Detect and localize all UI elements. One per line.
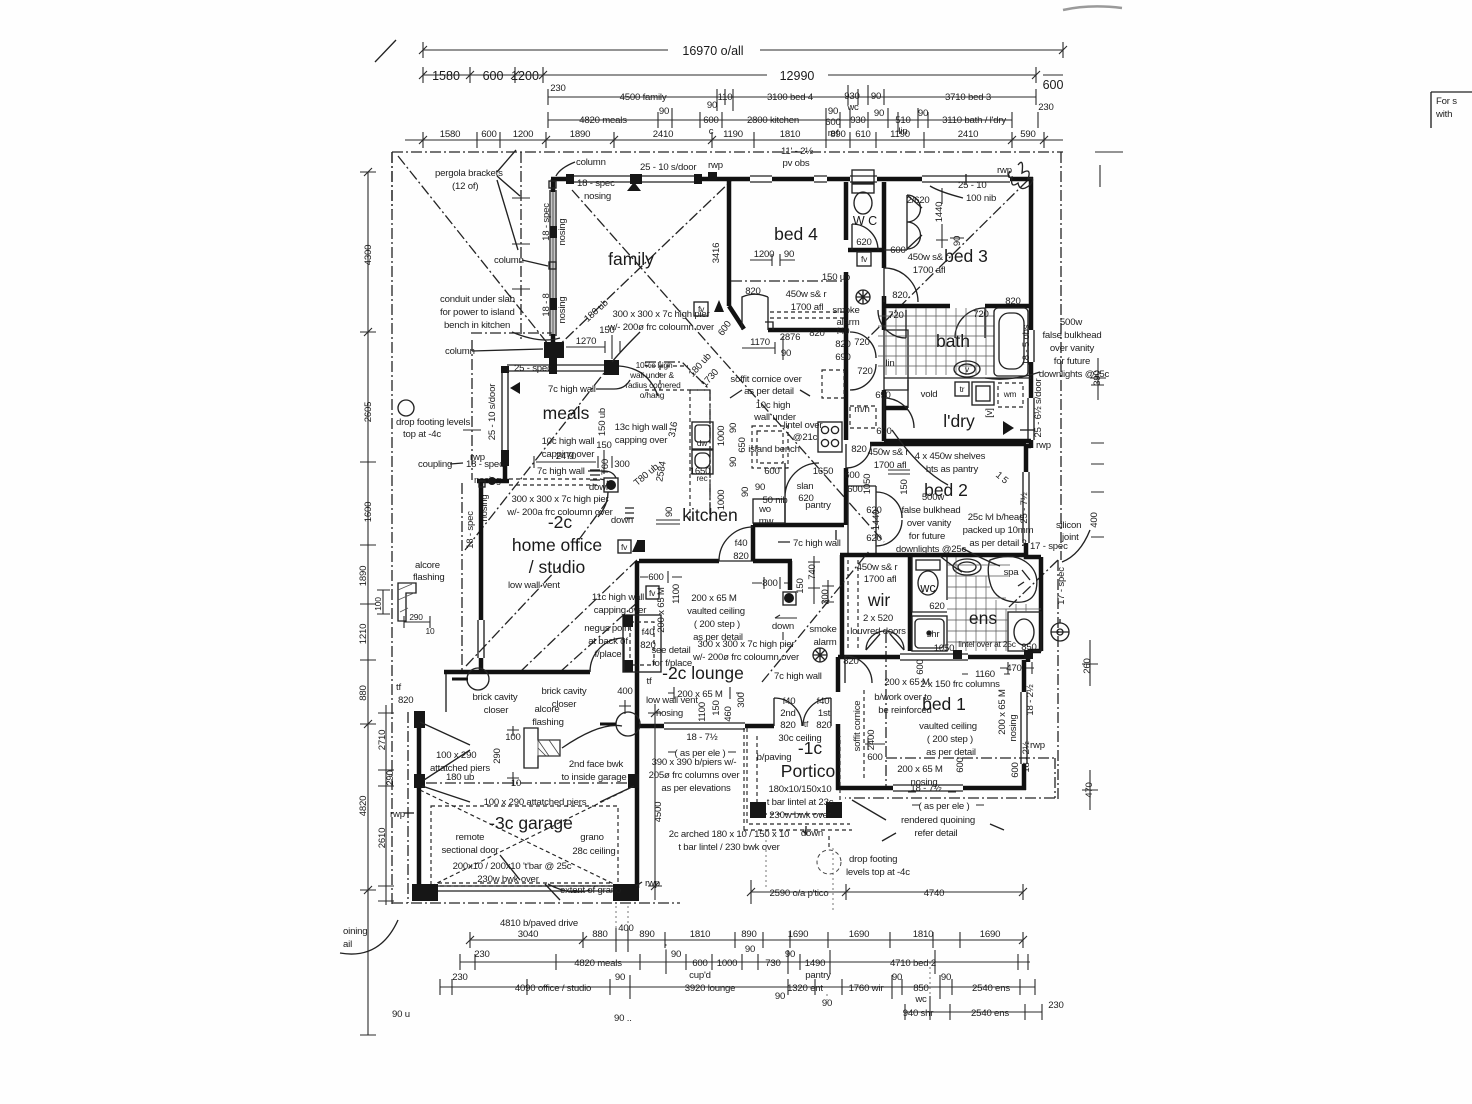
svg-text:fv: fv (698, 304, 705, 314)
top-left corner diagonal (398, 156, 548, 344)
garage top dash-dot (426, 782, 628, 784)
svg-text:low wall vent: low wall vent (508, 580, 560, 591)
drop footing dashed circle portico (817, 850, 841, 874)
svg-text:720: 720 (857, 366, 872, 377)
bed4 robe dashed (770, 312, 846, 318)
svg-text:wall under &: wall under & (629, 370, 674, 380)
svg-text:tf: tf (396, 682, 401, 693)
svg-text:4810 b/paved drive: 4810 b/paved drive (500, 918, 578, 929)
svg-text:-3c garage: -3c garage (489, 813, 573, 833)
ldry notes (1003, 421, 1014, 435)
pier at meals/kitchen (604, 360, 619, 375)
svg-text:Portico: Portico (781, 761, 835, 781)
svg-text:150: 150 (795, 578, 806, 593)
svg-text:230: 230 (1038, 102, 1053, 113)
svg-text:1690: 1690 (788, 929, 809, 940)
svg-text:rendered quoining: rendered quoining (901, 815, 975, 826)
svg-text:1690: 1690 (849, 929, 870, 940)
bed1 right wall (1022, 660, 1027, 692)
ens bump out (1024, 557, 1041, 662)
svg-text:4500 family: 4500 family (620, 92, 667, 103)
svg-text:fv: fv (861, 254, 868, 264)
svg-text:230: 230 (1048, 1000, 1063, 1011)
svg-text:25 - spec: 25 - spec (514, 363, 552, 374)
meals top low wall 7c (507, 365, 606, 371)
svg-text:1100: 1100 (671, 584, 682, 604)
svg-text:150: 150 (899, 479, 910, 494)
svg-text:vold: vold (921, 389, 938, 400)
svg-text:90: 90 (918, 108, 928, 119)
svg-text:720: 720 (888, 310, 903, 321)
svg-text:3040: 3040 (518, 929, 539, 940)
svg-text:4740: 4740 (924, 888, 945, 899)
svg-text:oining: oining (343, 926, 367, 937)
svg-text:18 - spec: 18 - spec (541, 203, 552, 241)
svg-text:150 ub: 150 ub (597, 408, 608, 436)
ldry door arc (884, 398, 914, 428)
svg-text:tf: tf (647, 676, 652, 687)
portico piers (750, 802, 766, 818)
lounge front window 18-7.5 (664, 723, 745, 729)
svg-text:extent of grano: extent of grano (560, 885, 621, 896)
eaves outline right (1058, 152, 1061, 800)
svg-text:f40: f40 (735, 538, 748, 549)
family dims (566, 335, 620, 359)
alcove stub wall (445, 674, 447, 712)
svg-text:820: 820 (1005, 296, 1020, 307)
svg-text:1190: 1190 (890, 129, 910, 140)
svg-text:( as per ele ): ( as per ele ) (918, 801, 969, 812)
svg-text:grano: grano (580, 832, 604, 843)
bed3 corner diagonal (868, 180, 1028, 338)
bed1 vertical dash-dot (885, 632, 887, 788)
svg-text:dw: dw (697, 438, 708, 448)
svg-text:1200: 1200 (513, 129, 534, 140)
tr box (972, 382, 994, 405)
svg-text:kitchen: kitchen (682, 505, 737, 525)
svg-text:( 200 step ): ( 200 step ) (927, 734, 973, 745)
svg-text:2540 ens: 2540 ens (972, 983, 1010, 994)
bed3 window 25-10 (922, 174, 1010, 184)
svg-text:300: 300 (736, 692, 747, 707)
svg-text:closer: closer (484, 705, 509, 716)
svg-text:fv: fv (621, 542, 628, 552)
svg-text:bed 3: bed 3 (944, 246, 988, 266)
svg-text:820: 820 (835, 339, 850, 350)
svg-text:alcore: alcore (535, 704, 560, 715)
ens vanity (953, 559, 981, 575)
bath/bed3 wall (884, 304, 1031, 309)
svg-text:820: 820 (843, 656, 858, 667)
svg-text:400: 400 (618, 923, 633, 934)
svg-text:90: 90 (828, 106, 838, 117)
lounge top wall (639, 559, 719, 564)
svg-text:bench in kitchen: bench in kitchen (444, 320, 510, 331)
svg-text:1000: 1000 (716, 426, 727, 447)
svg-text:150: 150 (599, 325, 614, 336)
entry double doors (774, 698, 802, 726)
svg-text:for future: for future (1054, 356, 1090, 367)
svg-text:/ studio: / studio (529, 557, 585, 577)
svg-text:390 x 390 b/piers w/-: 390 x 390 b/piers w/- (652, 757, 737, 768)
svg-text:1600: 1600 (363, 502, 374, 523)
wir west wall (840, 555, 845, 657)
bed2 right wall lower (1024, 543, 1029, 559)
svg-text:600: 600 (764, 466, 779, 477)
svg-text:10: 10 (511, 778, 521, 789)
svg-text:150: 150 (711, 700, 722, 715)
svg-text:3100 bed 4: 3100 bed 4 (767, 92, 814, 103)
ens bottom / bed1 top wall (838, 655, 1028, 660)
l'dry slider right 25-6.5 (1028, 398, 1034, 440)
svg-text:90: 90 (740, 487, 751, 497)
svg-text:b/work over to: b/work over to (874, 692, 931, 703)
svg-text:capping over: capping over (594, 605, 648, 616)
soffit cornice dashed vertical entry (863, 690, 865, 780)
svg-text:cup'd: cup'd (689, 970, 711, 981)
smoke alarm bed area (856, 290, 870, 304)
meals low wall dashed (509, 479, 612, 492)
svg-text:rwp: rwp (1030, 740, 1045, 751)
svg-text:90: 90 (785, 949, 795, 960)
svg-text:@21c: @21c (793, 432, 818, 443)
bed1 bottom wall (963, 786, 1026, 791)
cut-off note box right edge (1431, 92, 1472, 128)
svg-text:m/h: m/h (854, 404, 869, 415)
meals sliding door west 25-10 s/door (502, 370, 508, 456)
svg-text:wir: wir (867, 590, 891, 610)
svg-text:620: 620 (866, 533, 881, 544)
wm dashed box (998, 383, 1023, 407)
bed1 window bottom 18-7.5 (893, 785, 963, 791)
family top wall west segment (551, 177, 570, 182)
svg-text:1050: 1050 (934, 643, 955, 654)
dimension row 4500 family / 3100 bed4 / 3710 bed3 (548, 83, 1054, 113)
svg-text:1190: 1190 (723, 129, 743, 140)
svg-text:2590 o/a p'tico: 2590 o/a p'tico (769, 888, 828, 899)
svg-text:510: 510 (895, 115, 910, 126)
island bench dashed (752, 426, 788, 468)
svg-text:18 - 7½: 18 - 7½ (686, 732, 717, 743)
svg-text:2/620: 2/620 (906, 195, 929, 206)
svg-text:18 - 8: 18 - 8 (541, 293, 552, 316)
office/lounge diagonal dashes (560, 500, 640, 672)
svg-text:sectional door: sectional door (442, 845, 500, 856)
lounge west wall continuing as garage east wall (635, 561, 640, 888)
svg-text:rwp: rwp (1036, 440, 1051, 451)
svg-text:4820 meals: 4820 meals (574, 958, 622, 969)
svg-text:pantry: pantry (805, 970, 831, 981)
eaves bottom right around bed1 (845, 758, 1055, 798)
svg-text:10: 10 (426, 626, 435, 636)
svg-text:300: 300 (614, 459, 629, 470)
office bottom wall (444, 670, 590, 675)
ens basin right (1008, 612, 1041, 651)
garage west wall (417, 713, 422, 888)
svg-text:180x10/150x10: 180x10/150x10 (768, 784, 831, 795)
svg-text:vaulted ceiling: vaulted ceiling (919, 721, 977, 732)
svg-text:820: 820 (809, 328, 824, 339)
svg-text:1000: 1000 (717, 958, 738, 969)
svg-text:7c high wall: 7c high wall (548, 384, 596, 395)
svg-text:90: 90 (781, 348, 791, 359)
svg-text:500w: 500w (1060, 317, 1082, 328)
bed4 150ub dash line (731, 280, 846, 282)
svg-text:radius cornered: radius cornered (625, 380, 681, 390)
svg-text:90: 90 (952, 236, 963, 246)
svg-text:2610: 2610 (377, 828, 388, 849)
svg-text:90: 90 (892, 972, 902, 983)
svg-text:w/- 200ø frc coloumn over: w/- 200ø frc coloumn over (607, 322, 715, 333)
lounge SW front wall (635, 724, 664, 729)
svg-text:over vanity: over vanity (907, 518, 952, 529)
svg-text:820: 820 (745, 286, 760, 297)
wc toilet (852, 184, 874, 214)
family cross diagonals (572, 190, 884, 542)
portico eaves dashes (744, 728, 852, 830)
svg-text:610: 610 (855, 129, 870, 140)
svg-text:1050: 1050 (862, 474, 873, 495)
bed4 window (750, 176, 772, 182)
svg-text:600: 600 (648, 572, 663, 583)
svg-text:vaulted ceiling: vaulted ceiling (687, 606, 745, 617)
portico o/a dimension (747, 880, 1027, 904)
left overall vertical dimension chain (358, 168, 376, 1035)
svg-text:fv: fv (649, 588, 656, 598)
svg-text:820: 820 (892, 290, 907, 301)
svg-text:100 nib: 100 nib (966, 193, 996, 204)
svg-text:1580: 1580 (432, 69, 460, 83)
svg-text:90 ..: 90 .. (614, 1013, 632, 1024)
svg-text:brick cavity: brick cavity (472, 692, 517, 703)
svg-text:1100: 1100 (697, 702, 708, 722)
svg-text:11c high wall: 11c high wall (592, 592, 644, 603)
bath bottom / vanity line (884, 377, 1031, 379)
office door arc (590, 638, 624, 672)
bath tub (994, 308, 1028, 376)
svg-text:300 x 300 x 7c high pier: 300 x 300 x 7c high pier (697, 639, 795, 650)
svg-text:90 u: 90 u (392, 1009, 410, 1020)
bed4 bottom wall (768, 328, 848, 333)
svg-text:to inside garage: to inside garage (561, 772, 626, 783)
svg-text:2nd face bwk: 2nd face bwk (569, 759, 624, 770)
svg-text:1810: 1810 (690, 929, 711, 940)
svg-text:coupling: coupling (418, 459, 452, 470)
svg-text:bath: bath (936, 331, 970, 351)
svg-text:13c high wall: 13c high wall (615, 422, 668, 433)
svg-text:17 - spec: 17 - spec (1030, 541, 1068, 552)
svg-text:W C: W C (853, 214, 877, 228)
svg-text:450w s& r: 450w s& r (786, 289, 828, 300)
dimension row 16970 o/all (419, 42, 1067, 58)
bed2 top wall door opening + wall (870, 442, 1026, 447)
svg-text:( 200 step ): ( 200 step ) (694, 619, 740, 630)
svg-text:90: 90 (659, 106, 669, 117)
svg-text:620: 620 (856, 237, 871, 248)
wc bottom wall (848, 248, 884, 253)
svg-text:2410: 2410 (958, 129, 979, 140)
svg-text:600: 600 (1010, 762, 1021, 777)
svg-text:740: 740 (807, 564, 818, 579)
svg-text:720: 720 (973, 309, 988, 320)
svg-text:downlights @25c: downlights @25c (1039, 369, 1110, 380)
svg-text:300 x 300 x 7c high pier: 300 x 300 x 7c high pier (612, 309, 710, 320)
svg-text:T60: T60 (600, 459, 611, 475)
bed2 bottom / wir top wall (840, 553, 1026, 558)
radius cornered overhang curve (619, 366, 658, 396)
svg-text:600: 600 (915, 659, 926, 674)
svg-text:1810: 1810 (780, 129, 801, 140)
svg-text:230w bwk over: 230w bwk over (769, 810, 831, 821)
svg-text:2c arched 180 x 10 / 150 x 10: 2c arched 180 x 10 / 150 x 10 (669, 829, 790, 840)
family sliding door top (25-10 s/door) (570, 176, 700, 182)
svg-text:90: 90 (728, 457, 739, 467)
lounge NE pier (783, 592, 796, 605)
svg-text:1170: 1170 (750, 337, 770, 348)
svg-text:down: down (772, 621, 794, 632)
ldry west wall (882, 390, 887, 404)
svg-text:t bar lintel / 230 bwk over: t bar lintel / 230 bwk over (678, 842, 780, 853)
svg-text:1890: 1890 (358, 566, 369, 587)
svg-text:200 x 65 M: 200 x 65 M (997, 689, 1008, 735)
svg-text:packed up 10mm: packed up 10mm (963, 525, 1034, 536)
svg-text:90: 90 (745, 944, 755, 955)
svg-text:600: 600 (890, 245, 905, 256)
svg-text:home office: home office (512, 535, 602, 555)
svg-text:690: 690 (875, 390, 890, 401)
pv obs window wc (850, 176, 877, 182)
svg-text:pv obs: pv obs (782, 158, 809, 169)
svg-text:capping over: capping over (615, 435, 669, 446)
svg-text:820: 820 (398, 695, 413, 706)
office west wall (479, 483, 484, 620)
svg-text:400: 400 (617, 686, 632, 697)
svg-text:1690: 1690 (980, 929, 1001, 940)
bed1 west wall (836, 657, 841, 692)
svg-text:1760 wir: 1760 wir (849, 983, 885, 994)
svg-text:590: 590 (1020, 129, 1035, 140)
svg-text:90: 90 (874, 108, 884, 119)
svg-text:1210: 1210 (358, 624, 369, 645)
svg-text:600: 600 (844, 470, 859, 481)
svg-text:7c high wall: 7c high wall (537, 466, 585, 477)
svg-text:200 x 65 M: 200 x 65 M (691, 593, 737, 604)
ldry bottom wall (884, 439, 1031, 444)
ens tiles (947, 557, 1041, 651)
svg-text:930: 930 (850, 115, 865, 126)
svg-text:1st: 1st (818, 708, 831, 719)
svg-text:10c high wall: 10c high wall (542, 436, 595, 447)
svg-text:smoke: smoke (809, 624, 836, 635)
svg-text:230: 230 (474, 949, 489, 960)
svg-text:1700 afl: 1700 afl (864, 574, 897, 585)
svg-text:25c lvl b/head: 25c lvl b/head (968, 512, 1024, 523)
svg-text:f/place: f/place (595, 649, 622, 660)
svg-text:880: 880 (592, 929, 607, 940)
svg-text:1490: 1490 (805, 958, 826, 969)
svg-text:880: 880 (358, 685, 369, 700)
svg-text:2470: 2470 (556, 451, 577, 462)
svg-text:2710: 2710 (377, 730, 388, 751)
svg-text:2800 kitchen: 2800 kitchen (747, 115, 799, 126)
svg-text:90: 90 (664, 507, 675, 517)
svg-text:[v]: [v] (984, 408, 995, 418)
svg-text:890: 890 (639, 929, 654, 940)
svg-text:slan: slan (797, 481, 814, 492)
svg-text:soffit cornice over: soffit cornice over (730, 374, 802, 385)
dimension row bottom chain 1580..590 (405, 129, 1063, 148)
svg-text:as per detail 2: as per detail 2 (969, 538, 1026, 549)
svg-text:100 x 290 attatched piers: 100 x 290 attatched piers (484, 797, 587, 808)
svg-text:column: column (494, 255, 524, 266)
svg-text:ail: ail (343, 939, 352, 950)
svg-text:18 - 5 obs: 18 - 5 obs (1021, 324, 1032, 365)
fridge dashed (822, 370, 844, 398)
drop footing levels note left (396, 400, 470, 440)
lin double doors (850, 332, 876, 390)
svg-text:720: 720 (854, 337, 869, 348)
svg-text:800: 800 (762, 578, 777, 589)
ens spa (988, 556, 1037, 602)
bed2 door arc (846, 444, 871, 468)
svg-text:820: 820 (780, 720, 795, 731)
fireplace (623, 615, 661, 672)
svg-text:260: 260 (1082, 658, 1093, 673)
family/bed4 wall (729, 181, 744, 329)
right edge labels (997, 358, 1106, 810)
svg-text:100: 100 (373, 597, 383, 611)
svg-text:low wall vent: low wall vent (646, 695, 698, 706)
svg-text:for f/place: for f/place (652, 658, 692, 669)
svg-text:600: 600 (692, 958, 707, 969)
portico dashed outline (747, 728, 850, 824)
svg-text:90: 90 (871, 91, 881, 102)
svg-text:island bench: island bench (748, 444, 799, 455)
hall west wall lower (882, 404, 887, 441)
svg-text:600: 600 (847, 484, 862, 495)
top wall NE corner (1010, 177, 1033, 312)
svg-text:be reinforced: be reinforced (878, 705, 931, 716)
svg-text:200 x 65 M: 200 x 65 M (656, 587, 667, 633)
entry doors opening top y726, wall west of doors (745, 724, 774, 729)
svg-text:drop footing: drop footing (849, 854, 897, 865)
svg-text:false bulkhead: false bulkhead (1042, 330, 1101, 341)
svg-text:1700 afl: 1700 afl (791, 302, 824, 313)
svg-text:820: 820 (640, 640, 655, 651)
wir/ens wall (908, 557, 913, 651)
svg-text:1200: 1200 (511, 69, 539, 83)
svg-text:f40: f40 (817, 696, 830, 707)
dimension row 4820 meals / 2800 kitchen / 3110 bath (548, 106, 1038, 139)
eaves step top-left (391, 152, 393, 210)
svg-text:levels top at -4c: levels top at -4c (846, 867, 910, 878)
svg-text:10c high: 10c high (756, 400, 791, 411)
svg-text:column: column (576, 157, 606, 168)
pantry door arc (785, 463, 819, 497)
svg-text:alcore: alcore (415, 560, 440, 571)
office window arrow (510, 382, 520, 394)
stove (818, 422, 842, 452)
svg-text:820: 820 (816, 720, 831, 731)
kitchen-lounge door arc (719, 527, 753, 561)
bed3/hall wall lower (882, 296, 887, 330)
bottom chain row 4 (822, 962, 1064, 1020)
svg-text:rwp: rwp (708, 160, 723, 171)
svg-text:down: down (589, 482, 611, 493)
kitchen soffit dashed outline (645, 362, 710, 520)
svg-text:wo: wo (758, 504, 771, 515)
eaves left full (392, 152, 408, 905)
